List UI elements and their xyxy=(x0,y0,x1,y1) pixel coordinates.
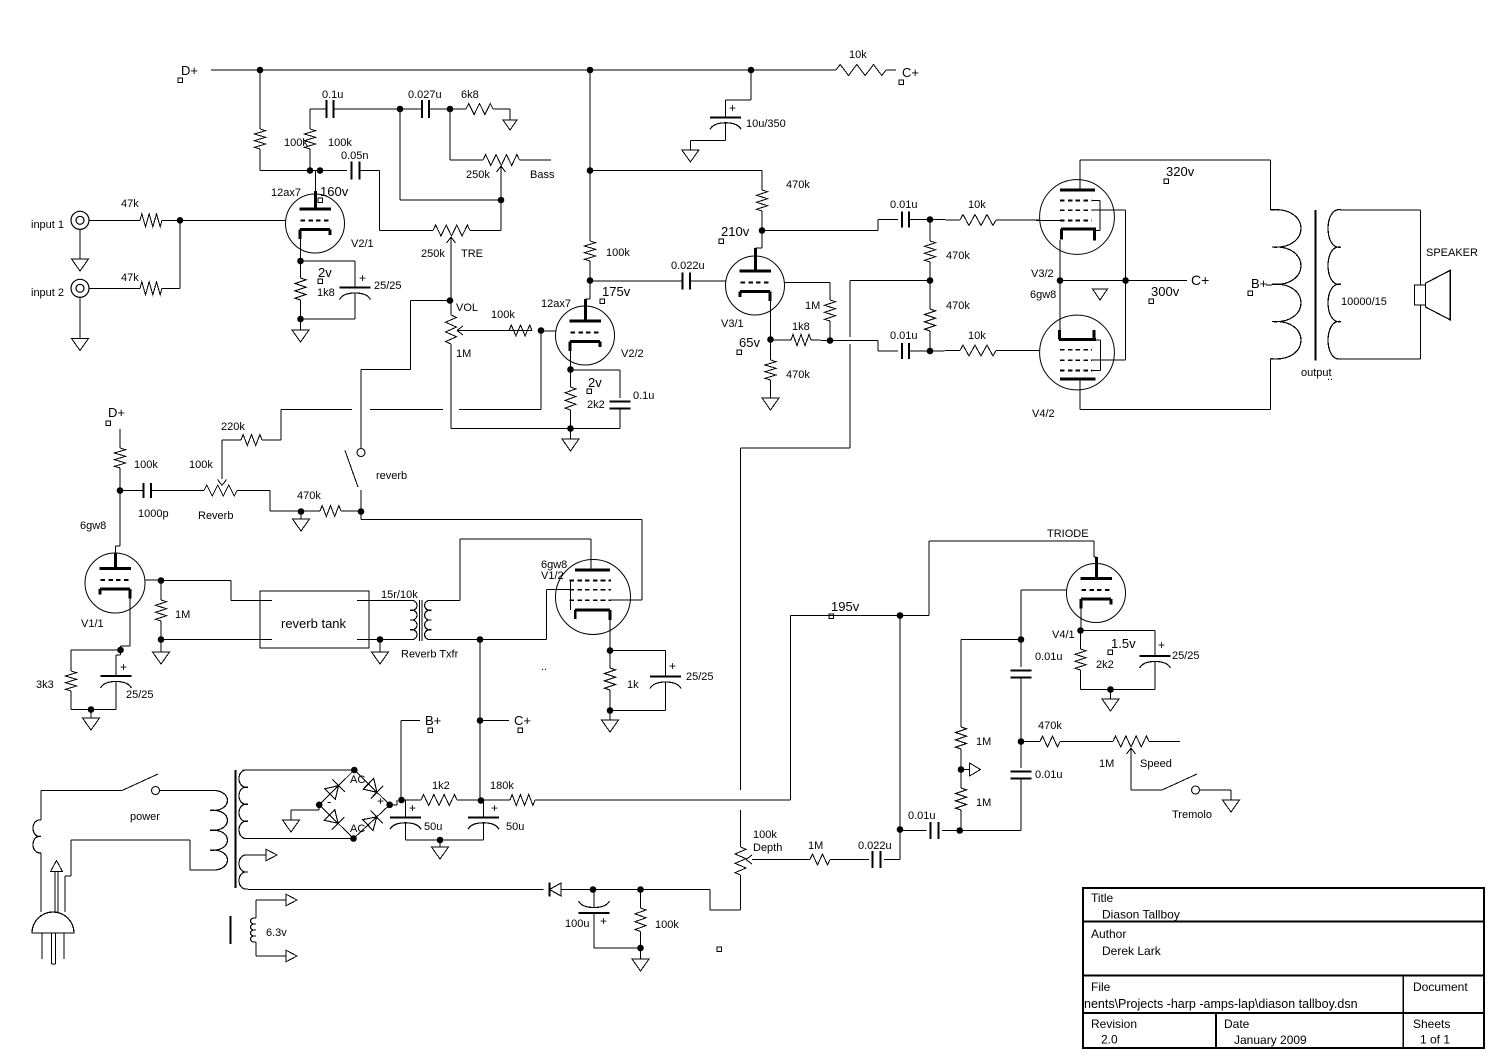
svg-text:100k: 100k xyxy=(189,459,213,471)
svg-text:SPEAKER: SPEAKER xyxy=(1426,247,1478,259)
svg-text:1M: 1M xyxy=(976,736,991,748)
svg-text:Title: Title xyxy=(1091,891,1114,905)
svg-text:Bass: Bass xyxy=(530,169,555,181)
svg-text:1k8: 1k8 xyxy=(792,321,810,333)
svg-text:50u: 50u xyxy=(424,821,442,833)
svg-text:0.022u: 0.022u xyxy=(671,260,705,272)
svg-text:2v: 2v xyxy=(588,375,602,390)
svg-text:1k8: 1k8 xyxy=(317,287,335,299)
svg-text:Speed: Speed xyxy=(1140,758,1172,770)
svg-text:0.1u: 0.1u xyxy=(322,89,343,101)
svg-text:1M: 1M xyxy=(175,609,190,621)
svg-text:65v: 65v xyxy=(739,335,760,350)
svg-text:0.05n: 0.05n xyxy=(341,150,369,162)
svg-text:1 of 1: 1 of 1 xyxy=(1420,1033,1450,1047)
svg-text:TRIODE: TRIODE xyxy=(1047,528,1089,540)
svg-text:input 2: input 2 xyxy=(31,287,64,299)
svg-text:0.01u: 0.01u xyxy=(890,199,918,211)
svg-text:+: + xyxy=(669,659,676,673)
svg-text:+: + xyxy=(600,914,607,928)
svg-text:Reverb: Reverb xyxy=(198,510,233,522)
svg-text:+: + xyxy=(359,271,366,285)
svg-text:Document: Document xyxy=(1413,980,1468,994)
svg-text:470k: 470k xyxy=(1038,720,1062,732)
svg-text:12ax7: 12ax7 xyxy=(271,187,301,199)
svg-text:+: + xyxy=(1158,638,1165,652)
svg-text:470k: 470k xyxy=(297,490,321,502)
svg-text:C+: C+ xyxy=(1191,272,1209,288)
svg-text:V4/2: V4/2 xyxy=(1032,408,1055,420)
svg-text:15r/10k: 15r/10k xyxy=(381,589,418,601)
svg-text:Date: Date xyxy=(1224,1017,1250,1031)
svg-text:220k: 220k xyxy=(221,421,245,433)
svg-text:TRE: TRE xyxy=(461,248,483,260)
svg-text:1M: 1M xyxy=(805,300,820,312)
svg-text:nents\Projects -harp -amps-lap: nents\Projects -harp -amps-lap\diason ta… xyxy=(1084,997,1358,1011)
svg-text:0.01u: 0.01u xyxy=(1035,651,1063,663)
svg-text:175v: 175v xyxy=(602,284,631,299)
svg-text:0.01u: 0.01u xyxy=(890,330,918,342)
svg-text:V1/1: V1/1 xyxy=(81,618,104,630)
svg-text:AC: AC xyxy=(350,774,365,786)
svg-text:6gw8: 6gw8 xyxy=(1030,289,1056,301)
svg-text:470k: 470k xyxy=(786,369,810,381)
svg-text:Author: Author xyxy=(1091,927,1126,941)
svg-text:160v: 160v xyxy=(320,184,349,199)
svg-text:V3/1: V3/1 xyxy=(721,318,744,330)
svg-text:Diason Tallboy: Diason Tallboy xyxy=(1102,908,1180,922)
svg-text:1M: 1M xyxy=(1099,758,1114,770)
svg-text:reverb tank: reverb tank xyxy=(281,616,347,631)
svg-text:47k: 47k xyxy=(121,272,139,284)
svg-text:V1/2: V1/2 xyxy=(541,570,564,582)
svg-text:2v: 2v xyxy=(318,265,332,280)
svg-text:1k: 1k xyxy=(627,679,639,691)
svg-text:25/25: 25/25 xyxy=(374,280,402,292)
svg-text:AC: AC xyxy=(350,823,365,835)
svg-text:D+: D+ xyxy=(108,405,125,420)
svg-text:10u/350: 10u/350 xyxy=(746,118,786,130)
svg-text:10k: 10k xyxy=(968,330,986,342)
svg-text:0.022u: 0.022u xyxy=(858,840,892,852)
svg-text:6gw8: 6gw8 xyxy=(80,520,106,532)
svg-text:+: + xyxy=(491,801,498,815)
svg-text:100k: 100k xyxy=(655,919,679,931)
svg-text:250k: 250k xyxy=(421,248,445,260)
svg-text:Tremolo: Tremolo xyxy=(1172,809,1212,821)
svg-text:input 1: input 1 xyxy=(31,219,64,231)
svg-text:power: power xyxy=(130,811,160,823)
svg-text:100u: 100u xyxy=(565,918,589,930)
svg-text:B+: B+ xyxy=(1251,276,1267,291)
svg-text:50u: 50u xyxy=(506,821,524,833)
svg-text:0.01u: 0.01u xyxy=(908,810,936,822)
svg-text:210v: 210v xyxy=(721,224,750,239)
svg-text:100k: 100k xyxy=(328,137,352,149)
svg-text:VOL: VOL xyxy=(456,302,478,314)
svg-text:100k: 100k xyxy=(753,829,777,841)
svg-text:25/25: 25/25 xyxy=(126,689,154,701)
svg-text:250k: 250k xyxy=(466,169,490,181)
svg-text:2k2: 2k2 xyxy=(587,399,605,411)
svg-text:C+: C+ xyxy=(514,713,531,728)
svg-text:Reverb Txfr: Reverb Txfr xyxy=(401,649,459,661)
svg-text:File: File xyxy=(1091,980,1111,994)
svg-text:Depth: Depth xyxy=(753,842,782,854)
svg-text:300v: 300v xyxy=(1151,284,1180,299)
svg-text:470k: 470k xyxy=(786,179,810,191)
svg-text:6.3v: 6.3v xyxy=(266,927,287,939)
svg-text:Derek Lark: Derek Lark xyxy=(1102,944,1162,958)
svg-text:1000p: 1000p xyxy=(138,508,169,520)
svg-text:+: + xyxy=(377,794,384,808)
svg-text:C+: C+ xyxy=(902,65,919,80)
svg-text:..: .. xyxy=(541,661,547,673)
svg-text:470k: 470k xyxy=(946,250,970,262)
svg-text:47k: 47k xyxy=(121,198,139,210)
svg-text:1.5v: 1.5v xyxy=(1111,636,1136,651)
svg-text:V4/1: V4/1 xyxy=(1052,629,1075,641)
svg-text:25/25: 25/25 xyxy=(1172,650,1200,662)
svg-text:100k: 100k xyxy=(606,247,630,259)
svg-text:2k2: 2k2 xyxy=(1096,659,1114,671)
svg-text:+: + xyxy=(729,101,736,115)
svg-text:470k: 470k xyxy=(946,300,970,312)
svg-text:0.1u: 0.1u xyxy=(633,390,654,402)
svg-text:180k: 180k xyxy=(490,780,514,792)
svg-text:195v: 195v xyxy=(831,599,860,614)
svg-text:V2/2: V2/2 xyxy=(621,348,644,360)
svg-text:25/25: 25/25 xyxy=(686,671,714,683)
svg-text:3k3: 3k3 xyxy=(36,679,54,691)
svg-text:100k: 100k xyxy=(284,137,308,149)
svg-text:January 2009: January 2009 xyxy=(1234,1033,1307,1047)
svg-text:Sheets: Sheets xyxy=(1413,1017,1450,1031)
svg-text:V3/2: V3/2 xyxy=(1031,268,1054,280)
svg-text:V2/1: V2/1 xyxy=(351,238,374,250)
svg-text:6k8: 6k8 xyxy=(461,89,479,101)
svg-text:100k: 100k xyxy=(491,309,515,321)
svg-text:-: - xyxy=(327,794,331,809)
svg-text:D+: D+ xyxy=(181,63,198,78)
svg-text:10k: 10k xyxy=(849,49,867,61)
svg-text:10000/15: 10000/15 xyxy=(1341,296,1387,308)
svg-text:Revision: Revision xyxy=(1091,1017,1137,1031)
svg-text:100k: 100k xyxy=(134,459,158,471)
svg-text:10k: 10k xyxy=(968,199,986,211)
svg-text:reverb: reverb xyxy=(376,470,407,482)
svg-text:320v: 320v xyxy=(1166,164,1195,179)
svg-text:1M: 1M xyxy=(808,840,823,852)
svg-text:0.027u: 0.027u xyxy=(408,89,442,101)
svg-text:B+: B+ xyxy=(425,713,441,728)
svg-text:+: + xyxy=(409,801,416,815)
svg-text:..: .. xyxy=(1327,371,1333,383)
svg-text:2.0: 2.0 xyxy=(1101,1033,1118,1047)
svg-text:12ax7: 12ax7 xyxy=(541,298,571,310)
svg-text:1M: 1M xyxy=(976,797,991,809)
svg-text:1k2: 1k2 xyxy=(432,780,450,792)
svg-text:+: + xyxy=(120,660,127,674)
svg-text:1M: 1M xyxy=(456,348,471,360)
svg-text:0.01u: 0.01u xyxy=(1035,769,1063,781)
